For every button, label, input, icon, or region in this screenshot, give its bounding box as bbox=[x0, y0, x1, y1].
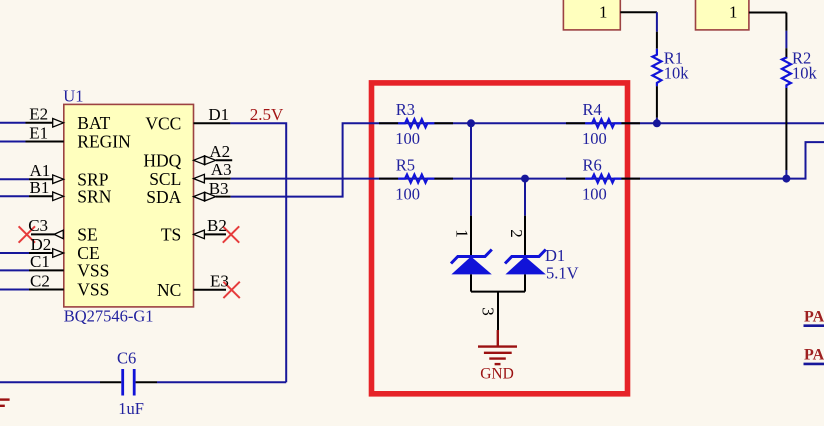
svg-text:HDQ: HDQ bbox=[143, 151, 181, 171]
pin SRN arrow bbox=[53, 192, 64, 201]
no-ERC cross E3 bbox=[223, 282, 239, 298]
svg-text:C2: C2 bbox=[30, 271, 50, 290]
resistor R6 bbox=[566, 178, 585, 180]
no-ERC cross B2 bbox=[223, 226, 239, 242]
svg-text:E2: E2 bbox=[29, 105, 48, 124]
resistor R1 top lead bbox=[656, 32, 658, 49]
zener D1 unit 2 triangle bbox=[505, 257, 545, 275]
pin SE arrow (out) bbox=[54, 230, 63, 239]
wire SCL row to R5 bbox=[231, 178, 379, 180]
svg-text:E1: E1 bbox=[29, 123, 48, 142]
diode D1 unit2 bottom lead bbox=[524, 274, 526, 291]
svg-text:BAT: BAT bbox=[77, 113, 110, 133]
ground (partial, bottom-left) bbox=[0, 400, 10, 406]
svg-text:NC: NC bbox=[157, 280, 181, 300]
wire 2.5V net: VCC to C6 right vertical bbox=[230, 123, 286, 382]
pin SCL stub A3 bbox=[204, 178, 230, 180]
capacitor C6 left lead bbox=[100, 381, 121, 383]
pin wire box2 to R2 bbox=[749, 12, 787, 14]
svg-text:2.5V: 2.5V bbox=[250, 105, 284, 124]
wire row R5/R6 bbox=[379, 142, 824, 179]
capacitor C6 right lead bbox=[136, 381, 157, 383]
underline PA2 bbox=[804, 363, 824, 366]
pin SDA bidir arrow bbox=[194, 192, 205, 201]
svg-text:5.1V: 5.1V bbox=[546, 263, 579, 282]
capacitor C6 plates bbox=[121, 369, 124, 396]
part TP1 (top box 1) bbox=[563, 0, 620, 30]
svg-text:1: 1 bbox=[453, 229, 472, 238]
wire C6 to 2.5V vertical bbox=[157, 381, 286, 383]
wire net C1 (left) bbox=[0, 269, 29, 271]
svg-text:BQ27546-G1: BQ27546-G1 bbox=[64, 306, 154, 325]
svg-text:E3: E3 bbox=[210, 272, 229, 291]
svg-text:100: 100 bbox=[395, 129, 420, 148]
svg-text:R4: R4 bbox=[583, 100, 602, 119]
IC U1 body bbox=[64, 104, 194, 307]
pin VCC stub D1 bbox=[194, 122, 231, 124]
pin SRN stub B1 bbox=[29, 195, 54, 197]
pin SRP stub A1 bbox=[29, 178, 54, 180]
diode D1 pin 3 lead bbox=[497, 292, 499, 330]
pin wire box1 to R1 bbox=[620, 11, 657, 13]
svg-text:100: 100 bbox=[582, 129, 607, 148]
pin HDQ stub A2 bbox=[216, 159, 232, 161]
svg-text:R5: R5 bbox=[396, 156, 415, 175]
pin SDA stub B3 bbox=[216, 196, 231, 198]
resistor R1 body bbox=[652, 49, 661, 86]
svg-text:10k: 10k bbox=[664, 63, 690, 82]
junction node R2/row bbox=[782, 175, 790, 183]
svg-text:PAC: PAC bbox=[804, 309, 824, 326]
wire row R3/R4 (net to right edge) bbox=[379, 122, 824, 124]
svg-text:1: 1 bbox=[729, 3, 738, 22]
pin BAT arrow bbox=[53, 119, 64, 128]
no-ERC cross C3 bbox=[19, 226, 35, 242]
resistor R4 bbox=[566, 122, 585, 124]
svg-text:D1: D1 bbox=[545, 246, 565, 265]
wire net D2 (left) bbox=[0, 252, 29, 254]
svg-text:VCC: VCC bbox=[145, 114, 181, 134]
svg-text:B2: B2 bbox=[207, 216, 227, 235]
wire box1 corner down bbox=[656, 12, 658, 32]
svg-text:1uF: 1uF bbox=[118, 399, 144, 418]
svg-text:B1: B1 bbox=[30, 178, 50, 197]
svg-text:C1: C1 bbox=[30, 252, 50, 271]
svg-text:VSS: VSS bbox=[77, 280, 109, 300]
resistor R2 body bbox=[782, 57, 791, 88]
svg-text:2: 2 bbox=[507, 229, 526, 238]
svg-text:C6: C6 bbox=[117, 349, 136, 368]
junction node R5/diode2 bbox=[521, 175, 529, 183]
svg-text:A2: A2 bbox=[209, 142, 230, 161]
pin TS stub B2 bbox=[204, 233, 226, 235]
underline PA1 bbox=[804, 324, 824, 327]
svg-text:U1: U1 bbox=[63, 87, 83, 106]
svg-text:C3: C3 bbox=[28, 216, 48, 235]
pin SE stub C3 bbox=[31, 233, 55, 235]
svg-text:100: 100 bbox=[582, 184, 607, 203]
svg-text:10k: 10k bbox=[792, 63, 818, 82]
wire box2 corner down bbox=[785, 13, 787, 31]
svg-text:100: 100 bbox=[395, 184, 420, 203]
wire net C2 (left) bbox=[0, 289, 29, 291]
svg-text:SRN: SRN bbox=[77, 187, 111, 207]
svg-text:SCL: SCL bbox=[149, 169, 181, 189]
svg-text:VSS: VSS bbox=[77, 261, 109, 281]
wire diode2 top lead bbox=[524, 179, 526, 216]
zener D1 unit 2 cathode bar bbox=[505, 250, 546, 264]
wire diode common bottom bbox=[471, 291, 525, 293]
pin HDQ bidir arrow bbox=[194, 156, 205, 165]
part TP2 (top box 2) bbox=[696, 0, 749, 30]
svg-text:D1: D1 bbox=[208, 105, 229, 124]
pin TS arrow bbox=[194, 230, 205, 239]
svg-text:B3: B3 bbox=[209, 179, 229, 198]
resistor R3 bbox=[379, 122, 398, 124]
wire net E2 (left) bbox=[0, 122, 26, 124]
pin CE stub D2 bbox=[29, 252, 54, 254]
wire net E1 (left) bbox=[0, 141, 26, 143]
resistor R2 top lead bbox=[785, 48, 787, 57]
pin VSS stub C1 bbox=[29, 269, 64, 271]
wire to R2 bbox=[785, 31, 787, 48]
pin CE arrow bbox=[53, 249, 64, 258]
svg-text:1: 1 bbox=[599, 3, 608, 22]
wire R2 to row bbox=[785, 170, 787, 179]
pin SCL arrow bbox=[194, 174, 205, 183]
pin NC stub E3 bbox=[194, 289, 227, 291]
svg-text:TS: TS bbox=[161, 225, 181, 245]
wire diode1 top lead bbox=[470, 123, 472, 215]
svg-text:SDA: SDA bbox=[146, 187, 181, 207]
diode D1 unit1 bottom lead bbox=[470, 274, 472, 291]
svg-text:R3: R3 bbox=[396, 100, 415, 119]
pin VSS stub C2 bbox=[29, 289, 64, 291]
pin REGIN stub E1 bbox=[26, 141, 64, 143]
zener D1 unit 1 cathode bar bbox=[451, 250, 492, 264]
diode D1 pin 1 lead bbox=[470, 216, 472, 257]
pin SRP arrow bbox=[53, 175, 64, 184]
resistor R2 bottom lead bbox=[785, 88, 787, 170]
svg-text:PAC: PAC bbox=[804, 347, 824, 364]
resistor R5 bbox=[379, 178, 398, 180]
svg-text:A3: A3 bbox=[211, 160, 232, 179]
svg-text:R6: R6 bbox=[583, 156, 602, 175]
svg-text:D2: D2 bbox=[31, 235, 52, 254]
diode D1 pin 2 lead bbox=[524, 216, 526, 257]
wire R1 to row bbox=[656, 118, 658, 124]
junction node R3/diode1 bbox=[467, 119, 475, 127]
wire net B1 (left) bbox=[0, 195, 29, 197]
zener D1 unit 1 triangle bbox=[451, 257, 491, 275]
resistor R1 bottom lead bbox=[656, 86, 658, 118]
svg-text:SE: SE bbox=[77, 225, 97, 245]
junction node R1/row bbox=[653, 119, 661, 127]
red highlight box bbox=[372, 83, 628, 394]
svg-text:3: 3 bbox=[479, 307, 498, 316]
wire SDA row to vertical riser bbox=[231, 123, 379, 196]
ground GND (diodes) bbox=[478, 330, 517, 364]
wire net A1 (left) bbox=[0, 178, 29, 180]
pin BAT stub E2 bbox=[26, 122, 54, 124]
wire bottom C6 net (left) bbox=[0, 381, 100, 383]
svg-text:GND: GND bbox=[480, 366, 514, 383]
svg-text:REGIN: REGIN bbox=[77, 132, 131, 152]
